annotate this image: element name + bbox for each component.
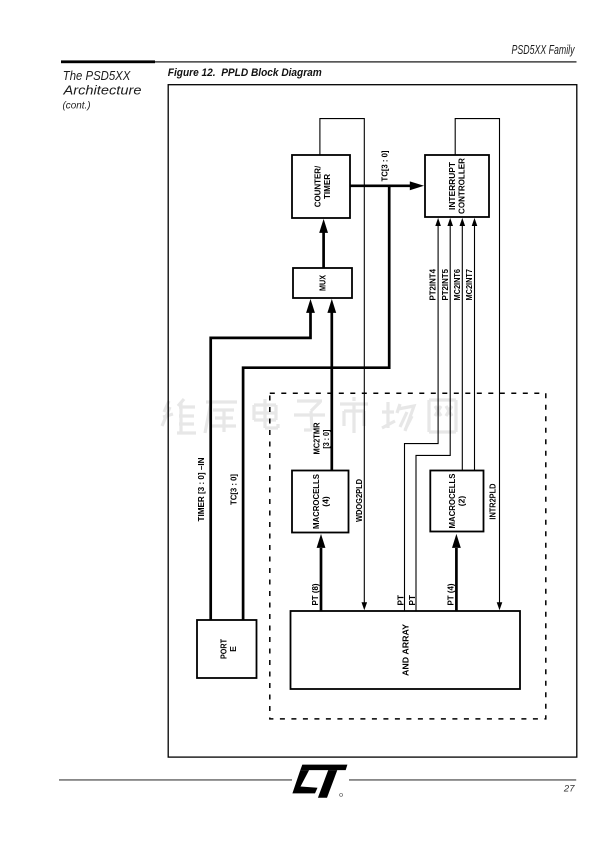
svg-text:WDOG2PLD: WDOG2PLD [355, 479, 364, 522]
svg-text:MUX: MUX [318, 275, 328, 291]
svg-text:The PSD5XX: The PSD5XX [63, 68, 131, 83]
svg-text:[3 : 0]: [3 : 0] [322, 429, 331, 448]
svg-text:PT2INT5: PT2INT5 [441, 269, 450, 301]
svg-text:PT: PT [396, 595, 405, 605]
svg-text:PORT: PORT [219, 638, 229, 659]
svg-text:PT2INT4: PT2INT4 [429, 269, 438, 301]
svg-text:TC[3 : 0]: TC[3 : 0] [230, 474, 239, 505]
svg-text:TC[3 : 0]: TC[3 : 0] [381, 150, 390, 181]
svg-text:CONTROLLER: CONTROLLER [457, 157, 467, 214]
svg-text:E: E [228, 646, 238, 652]
svg-text:Architecture: Architecture [62, 83, 141, 98]
svg-text:Figure 12. PPLD Block Diagram: Figure 12. PPLD Block Diagram [168, 67, 322, 79]
svg-text:PSD5XX Family: PSD5XX Family [512, 42, 576, 57]
svg-text:27: 27 [563, 784, 575, 795]
svg-text:MC2INT7: MC2INT7 [465, 269, 474, 301]
svg-text:(2): (2) [457, 496, 467, 507]
svg-text:MACROCELLS: MACROCELLS [447, 473, 457, 528]
svg-text:MC2TMR: MC2TMR [313, 422, 322, 454]
svg-text:PT (8): PT (8) [311, 583, 320, 605]
svg-text:(cont.): (cont.) [63, 100, 91, 112]
svg-text:PT: PT [408, 595, 417, 605]
svg-text:MC2INT6: MC2INT6 [453, 269, 462, 301]
svg-text:AND ARRAY: AND ARRAY [400, 624, 410, 676]
svg-text:TIMER [3 : 0] –IN: TIMER [3 : 0] –IN [197, 457, 206, 521]
svg-text:MACROCELLS: MACROCELLS [311, 474, 321, 529]
svg-text:PT (4): PT (4) [447, 583, 456, 605]
svg-text:COUNTER/: COUNTER/ [312, 165, 322, 207]
svg-text:INTR2PLD: INTR2PLD [489, 484, 498, 520]
svg-text:TIMER: TIMER [322, 173, 332, 199]
svg-text:INTERRUPT: INTERRUPT [447, 161, 457, 210]
svg-text:(4): (4) [321, 496, 331, 507]
